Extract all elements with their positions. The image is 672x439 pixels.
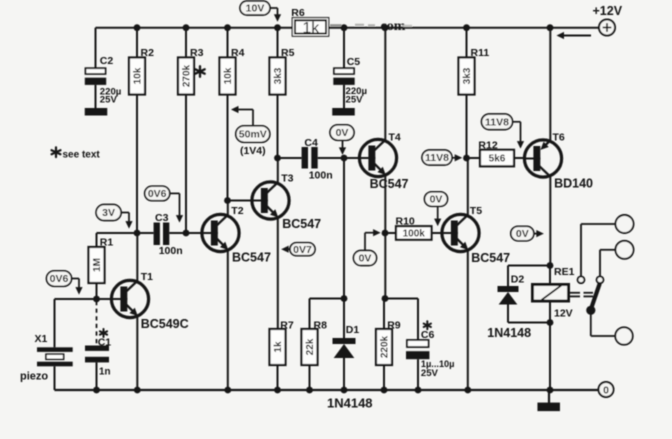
node junction R5 / T3 collector / C4 (274, 155, 281, 162)
oval 0V6 callout at T1 base (47, 271, 72, 287)
svg-text:100n: 100n (159, 245, 183, 257)
wire node row R1-C3-T2 base (97, 232, 154, 234)
wire relay coil vertical feed (549, 266, 551, 323)
ground symbol at 0V rail (537, 390, 560, 411)
svg-text:0V: 0V (516, 228, 529, 240)
svg-text:100n: 100n (309, 169, 333, 181)
svg-text:RE1: RE1 (554, 266, 575, 278)
wire R9 node to C6 (385, 298, 418, 300)
node junction R2 top (134, 24, 141, 31)
arrow from 0V callout down to T4 base node (339, 140, 346, 155)
svg-text:270k: 270k (182, 64, 193, 87)
svg-text:C1: C1 (98, 336, 112, 348)
svg-text:BC549C: BC549C (141, 317, 189, 331)
svg-text:10k: 10k (133, 67, 144, 84)
svg-text:10k: 10k (223, 67, 234, 84)
svg-text:0V7: 0V7 (293, 244, 312, 256)
svg-text:C2: C2 (100, 55, 114, 67)
wire R8 top lead (309, 299, 311, 330)
wire +12V/10V top rail left segment (10V node) (96, 27, 294, 29)
wire R1 top lead to node row (96, 233, 98, 247)
svg-text:50mV: 50mV (239, 129, 267, 141)
oval 50mV voltage callout (236, 126, 270, 143)
svg-text:10V: 10V (246, 3, 265, 15)
node junction R4 top (224, 24, 231, 31)
node junction T4 emitter / R9 / C6 branch (382, 295, 389, 302)
svg-text:25V: 25V (346, 94, 364, 105)
resistor R6 1k in series with supply rail (292, 18, 328, 37)
node junction R9 bottom (381, 387, 388, 394)
wire R1 bottom to T1 base node (96, 283, 98, 299)
switch pivot (586, 306, 595, 315)
transistor T4 BC547 (359, 139, 396, 176)
ground symbol below C2 (85, 108, 108, 116)
wire R5 bottom to T3 collector node (277, 95, 279, 159)
svg-text:12V: 12V (554, 307, 573, 319)
node junction C6 bottom (415, 387, 422, 394)
svg-text:0V: 0V (430, 194, 443, 206)
wire T2 collector node to T3 base (228, 200, 253, 202)
resistor R5 3k3 (270, 28, 286, 95)
resistor R12 5k6 (480, 150, 514, 167)
svg-text:BD140: BD140 (554, 177, 593, 191)
svg-text:25V: 25V (100, 95, 118, 106)
oval 0V callout above T5 base (425, 192, 448, 207)
node junction R8 bottom (306, 387, 313, 394)
svg-text:22k: 22k (305, 338, 316, 355)
node junction T4 collector top (382, 24, 389, 31)
node junction T1 emitter bottom (134, 387, 141, 394)
svg-text:C6: C6 (421, 329, 435, 341)
svg-text:BC547: BC547 (471, 251, 510, 265)
wire T2 emitter down to 0V rail (227, 250, 229, 390)
capacitor C2 220u 25V electrolytic (85, 28, 106, 108)
svg-text:R4: R4 (231, 47, 245, 59)
svg-text:R11: R11 (471, 47, 490, 59)
svg-text:R12: R12 (478, 140, 497, 152)
arrow from 0V callout to T6 collector line (534, 230, 544, 237)
svg-text:D2: D2 (511, 274, 525, 286)
svg-text:100k: 100k (403, 229, 426, 240)
svg-text:11V8: 11V8 (425, 152, 449, 164)
svg-text:X1: X1 (35, 333, 48, 345)
svg-text:(1V4): (1V4) (240, 145, 266, 157)
svg-text:R2: R2 (141, 47, 155, 59)
svg-text:C4: C4 (304, 137, 318, 149)
watermark dashes (330, 25, 412, 26)
terminal circle 1 (616, 215, 634, 233)
svg-text:3V: 3V (102, 207, 115, 219)
svg-text:3k3: 3k3 (273, 67, 284, 84)
wire T5 emitter down to 0V rail (467, 250, 469, 390)
oval 0V6 callout at T2 base (145, 186, 170, 201)
terminal +12V supply (599, 20, 615, 36)
svg-text:1N4148: 1N4148 (487, 326, 531, 340)
svg-text:R3: R3 (190, 47, 204, 59)
oval 10V voltage callout (240, 1, 270, 15)
wire R12 right lead to T6 base (514, 157, 525, 159)
transistor T3 BC547 (252, 182, 289, 219)
svg-text:C5: C5 (347, 56, 361, 68)
node junction D1 bottom (341, 387, 348, 394)
node junction T1 base / R1 / C1 (93, 296, 100, 303)
mechanical link dashes relay to switch (570, 293, 594, 297)
wire T5 collector up to R11/R12 node (467, 158, 469, 216)
wire T1 emitter down to 0V rail (136, 316, 138, 390)
label C6 asterisk (424, 321, 431, 329)
arrow from 10V callout to rail node (270, 8, 281, 22)
resistor R9 220k (376, 299, 392, 391)
oval 11V8 callout left of R12 (422, 150, 452, 165)
capacitor C6 electrolytic 1u-10u (406, 299, 429, 391)
arrow current direction into +12V rail (557, 32, 592, 39)
svg-text:11V8: 11V8 (485, 116, 509, 128)
resistor R2 10k (129, 28, 145, 95)
arrow from 11V8 callout to R11 node (452, 154, 462, 161)
oval 11V8 callout above T6 base (482, 114, 513, 130)
svg-text:C3: C3 (155, 212, 169, 224)
wire T4 collector up to +12V rail (384, 28, 386, 141)
transistor T1 BC549C (111, 280, 148, 317)
wire D2 anode to relay bottom node (508, 322, 550, 324)
wire R3 bottom to node row (185, 95, 187, 234)
label R3 asterisk see-text mark (195, 66, 204, 76)
wire R2 bottom to input node row (136, 95, 138, 234)
svg-text:0V: 0V (359, 253, 372, 265)
node junction R5 top / 10V measurement point (274, 24, 281, 31)
node junction T5 emitter bottom (464, 387, 471, 394)
wire relay bottom to 0V rail (549, 323, 551, 391)
arrow from 3V callout to node row (121, 213, 133, 229)
note asterisk see text (52, 147, 101, 160)
node junction R3 top (183, 24, 190, 31)
wire T6 emitter up to +12V rail (549, 28, 551, 142)
node junction T2 collector / R4 / T3 base (224, 197, 231, 204)
svg-text:R6: R6 (291, 7, 305, 19)
svg-text:220k: 220k (380, 335, 391, 358)
wire switch pivot to terminal 3 (591, 310, 616, 336)
svg-text:T6: T6 (553, 132, 565, 144)
transistor T5 BC547 (442, 214, 479, 251)
arrow from 0V7 callout to T3 emitter wire (281, 246, 290, 253)
oval 0V callout at T4 base (330, 125, 354, 141)
wire relay top node to D2 (508, 265, 550, 267)
oval 3V voltage callout (96, 205, 121, 221)
oval 0V callout at T6 collector (511, 226, 534, 241)
node junction R11 top (463, 24, 470, 31)
svg-text:see text: see text (63, 149, 101, 160)
transistor T2 BC547 (202, 214, 239, 251)
wire T3 collector up to R5/C4 node (277, 158, 279, 183)
wire T3 emitter down to R7 (277, 218, 279, 329)
svg-text:+12V: +12V (593, 4, 623, 18)
arrow from 0V6 callout down to T1 base wire (72, 279, 83, 295)
wire T2 collector up to node (227, 201, 229, 216)
svg-text:1n: 1n (99, 367, 110, 378)
ground symbol below C5 (332, 108, 355, 116)
svg-text:5k6: 5k6 (489, 154, 506, 165)
wire T4 emitter down through R10 node to R9 node (384, 175, 386, 298)
resistor R7 1k (270, 329, 286, 365)
svg-text:R5: R5 (281, 47, 295, 59)
svg-text:0V6: 0V6 (50, 273, 69, 285)
wire R10 left lead (385, 232, 396, 234)
wire switch contact B to terminal 2 (600, 250, 616, 276)
relay RE1 coil (533, 285, 569, 302)
wire R8 bottom to 0V rail (309, 365, 311, 390)
resistor R4 10k (220, 28, 236, 95)
svg-text:0: 0 (603, 384, 609, 396)
node junction C1 bottom (93, 387, 100, 394)
terminal circle 3 (615, 327, 632, 344)
svg-text:0V: 0V (336, 127, 349, 139)
node junction T6 emitter top (547, 24, 554, 31)
svg-text:T3: T3 (281, 172, 293, 184)
node junction R3 bottom (183, 230, 190, 237)
svg-text:R8: R8 (314, 320, 328, 332)
node junction R2 bottom / T1 collector (134, 230, 141, 237)
resistor R3 270k (178, 28, 194, 95)
resistor R10 100k (396, 226, 432, 240)
wire 0V bottom rail (55, 389, 599, 391)
arrow from 0V callout down to T5 base wire (434, 206, 441, 226)
svg-text:BC547: BC547 (282, 217, 321, 231)
svg-text:R9: R9 (387, 320, 401, 332)
diode D1 1N4148 clamp (333, 299, 356, 391)
resistor R11 3k3 (459, 28, 475, 95)
svg-text:T5: T5 (470, 205, 482, 217)
oval 0V7 callout at T3 emitter (290, 243, 315, 256)
svg-text:BC547: BC547 (232, 251, 271, 265)
svg-text:25V: 25V (421, 368, 439, 379)
svg-text:R1: R1 (100, 236, 114, 248)
wire R7 bottom to 0V rail (277, 365, 279, 390)
svg-text:1k: 1k (302, 20, 320, 37)
svg-text:D1: D1 (346, 324, 360, 336)
node junction C5 top (341, 24, 348, 31)
wire C4 to T4 base (318, 157, 360, 159)
svg-text:T4: T4 (389, 131, 401, 143)
terminal circle 2 (616, 241, 634, 259)
node junction R8 / D1 branch (341, 295, 348, 302)
wire R4 bottom to T2 collector node (227, 95, 229, 201)
arrow from 0V6 callout down to node row (170, 193, 183, 222)
svg-text:1N4148: 1N4148 (327, 395, 373, 410)
arrow from 50mV callout to R4/T2 collector branch (231, 106, 253, 126)
label C1 asterisk (100, 329, 107, 337)
switch contact B (597, 276, 604, 283)
wire R12 left lead (467, 157, 481, 159)
svg-text:1M: 1M (92, 258, 103, 272)
node junction T2 emitter bottom (224, 387, 231, 394)
transistor T6 BD140 PNP (524, 140, 561, 177)
resistor R1 1M (89, 247, 105, 283)
wire T1 collector up to node row (136, 233, 138, 282)
diode D2 1N4148 flyback (498, 266, 519, 323)
wire T4 base branch down to R8/D1 node (343, 158, 345, 299)
svg-text:piezo: piezo (20, 370, 48, 382)
svg-text:0V6: 0V6 (148, 188, 167, 200)
arrow from 11V8 callout down to T6 base wire (513, 122, 525, 149)
svg-text:1k: 1k (273, 341, 284, 353)
switch contact A (578, 276, 585, 283)
wire top rail right segment (+12V net) (328, 27, 599, 29)
node junction T4 emitter line / R10 left (382, 230, 389, 237)
arrow from 0V callout to R10 left node (365, 229, 381, 250)
svg-text:3k3: 3k3 (462, 67, 473, 84)
capacitor C1 1n dashed optional (85, 301, 109, 390)
svg-text:BC547: BC547 (370, 177, 409, 191)
svg-text:T1: T1 (141, 271, 153, 283)
wire R8 top horizontal (310, 298, 345, 300)
wire R5 node to C4 (278, 157, 302, 159)
node junction R11 / R12 / T5 collector (463, 155, 470, 162)
capacitor C4 100n coupling (302, 147, 318, 169)
capacitor C3 100n coupling (154, 223, 170, 246)
node junction C4 / T4 base / R8-D1 branch (341, 155, 348, 162)
svg-text:T2: T2 (231, 205, 243, 217)
resistor R8 22k (302, 329, 318, 365)
node junction relay top / D2 cathode (547, 262, 554, 269)
terminal 0V (599, 382, 614, 397)
wire R11 bottom to T5 collector node (466, 95, 468, 159)
wire T6 collector down to relay node (549, 176, 551, 266)
node junction relay bottom (547, 319, 554, 326)
piezo transducer X1 (37, 299, 73, 390)
wire switch contact A to terminal 1 (581, 224, 616, 276)
wire R10 right lead to T5 base (432, 232, 443, 234)
capacitor C5 220u 25V electrolytic (333, 28, 354, 108)
svg-text:com: com (381, 19, 406, 34)
oval 0V callout left of R10 (354, 251, 377, 266)
wire C3 right plate to T2 base (169, 232, 202, 234)
node junction R7 bottom (274, 387, 281, 394)
svg-text:R7: R7 (280, 320, 294, 332)
wire piezo to T1 base (55, 298, 112, 300)
switch lever (591, 284, 600, 310)
svg-text:R10: R10 (396, 216, 415, 228)
node junction relay branch bottom (547, 387, 554, 394)
